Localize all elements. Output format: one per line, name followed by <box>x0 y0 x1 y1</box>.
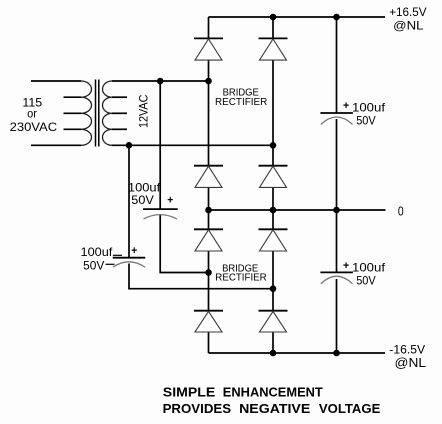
svg-text:230VAC: 230VAC <box>10 120 58 134</box>
svg-text:50V: 50V <box>83 258 104 272</box>
svg-text:50V: 50V <box>131 193 154 207</box>
svg-text:12VAC: 12VAC <box>136 94 150 128</box>
svg-text:50V: 50V <box>356 274 376 288</box>
svg-text:+16.5V: +16.5V <box>389 5 426 19</box>
svg-text:+: + <box>131 245 137 257</box>
svg-text:100uf: 100uf <box>81 245 114 259</box>
svg-text:PROVIDES: PROVIDES <box>163 402 232 416</box>
svg-text:@NL: @NL <box>393 18 424 32</box>
svg-text:@NL: @NL <box>395 356 427 370</box>
svg-text:RECTIFIER: RECTIFIER <box>215 97 267 108</box>
svg-text:50V: 50V <box>356 114 376 128</box>
svg-text:VOLTAGE: VOLTAGE <box>319 402 381 416</box>
svg-text:+: + <box>343 100 349 112</box>
svg-text:100uf: 100uf <box>352 101 386 115</box>
svg-text:or: or <box>27 107 37 121</box>
svg-text:ENHANCEMENT: ENHANCEMENT <box>223 385 323 399</box>
svg-text:+: + <box>167 194 173 206</box>
svg-text:+: + <box>343 260 349 272</box>
svg-text:0: 0 <box>398 204 404 218</box>
svg-text:NEGATIVE: NEGATIVE <box>239 402 310 416</box>
svg-text:RECTIFIER: RECTIFIER <box>215 273 266 284</box>
svg-text:100uf: 100uf <box>352 261 386 275</box>
svg-text:SIMPLE: SIMPLE <box>163 385 216 399</box>
svg-text:-16.5V: -16.5V <box>389 342 425 356</box>
